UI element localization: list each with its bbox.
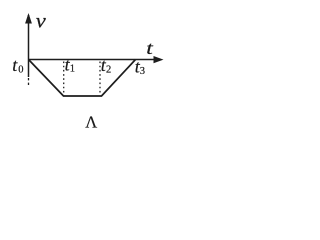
velocity curve (trapezoid)	[29, 60, 136, 97]
svg-text:0: 0	[18, 65, 23, 76]
svg-text:Λ: Λ	[85, 112, 97, 131]
svg-text:ν: ν	[36, 9, 47, 33]
dotted line t1	[63, 62, 65, 97]
svg-text:3: 3	[140, 66, 145, 77]
dotted line t2	[99, 62, 101, 96]
svg-text:2: 2	[106, 64, 111, 75]
t-axis arrowhead	[154, 56, 164, 63]
svg-text:t: t	[146, 38, 154, 58]
t-axis	[29, 59, 155, 61]
svg-text:1: 1	[70, 64, 75, 75]
v-axis lower dashed tail	[28, 78, 30, 86]
v-axis arrowhead	[25, 13, 32, 24]
v-axis	[28, 15, 30, 77]
